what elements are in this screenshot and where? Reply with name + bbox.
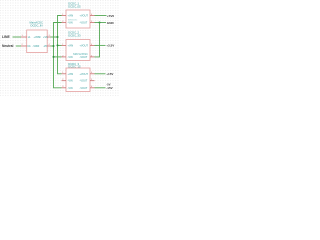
svg-text:+VIN: +VIN — [68, 15, 74, 18]
wire +5V0 — [95, 15, 107, 17]
pin 1 LINE — [21, 35, 31, 39]
pin +VIN U2 — [62, 14, 74, 18]
junction dot box2 +VIN — [57, 44, 59, 46]
pin -VIN U3 — [62, 55, 73, 59]
pin -VOUT U2 — [80, 21, 95, 25]
GND bus vertical — [95, 23, 100, 57]
svg-text:-VOUT: -VOUT — [80, 22, 88, 25]
component U3 DCDC_2 — [66, 30, 90, 60]
svg-text:-VOUT: -VOUT — [80, 56, 88, 59]
pin 3 +V06 — [34, 35, 51, 39]
junction dot GND bus — [99, 22, 101, 24]
pin -VIN U4 — [62, 86, 73, 90]
svg-text:DCDC_05: DCDC_05 — [68, 5, 81, 9]
wire +3.3V — [95, 44, 106, 46]
pin +VOUT U3 — [80, 44, 95, 48]
svg-text:LINE: LINE — [2, 35, 10, 39]
svg-text:+V06F: +V06F — [34, 36, 42, 39]
svg-text:+15V: +15V — [106, 72, 113, 76]
bus +V06 vertical — [58, 16, 62, 74]
wire branch box2 -VIN — [54, 56, 62, 58]
wire -V06 to bus — [51, 45, 54, 47]
wire — [13, 36, 22, 38]
wire +15V — [95, 73, 106, 75]
svg-text:DCDC_IN: DCDC_IN — [31, 24, 43, 28]
bus -V06 vertical — [54, 23, 62, 88]
pin +VOUT U4 — [80, 72, 95, 76]
pin COM left U4 — [62, 79, 73, 83]
svg-text:-15V: -15V — [106, 86, 112, 90]
svg-text:-V06F: -V06F — [33, 45, 40, 48]
pin -VOUT U4 — [80, 86, 95, 90]
junction dot box2 -VIN — [53, 56, 55, 58]
svg-text:+VOUT: +VOUT — [80, 44, 89, 47]
svg-text:-VOUT: -VOUT — [80, 80, 88, 83]
svg-text:+5V0: +5V0 — [107, 14, 115, 18]
wire +V06 to bus — [51, 36, 58, 38]
wire branch box2 +VIN — [58, 44, 62, 46]
svg-text:+VOUT: +VOUT — [80, 15, 89, 18]
svg-text:+VIN: +VIN — [68, 44, 74, 47]
svg-text:GND: GND — [107, 21, 115, 25]
pin -VOUT U3 — [80, 55, 95, 59]
svg-text:-VOUT: -VOUT — [80, 87, 88, 90]
wire GND — [95, 22, 107, 24]
wire — [16, 45, 21, 47]
svg-text:Neutral: Neutral — [2, 44, 13, 48]
svg-text:+VOUT: +VOUT — [80, 73, 89, 76]
svg-text:DCDC_33: DCDC_33 — [68, 33, 81, 37]
pin +VOUT U2 — [80, 14, 95, 18]
pin 0V right U4 (no connect) — [80, 79, 95, 83]
pin 4 -V06 — [33, 44, 51, 48]
svg-text:-VIN: -VIN — [68, 87, 73, 90]
svg-text:+3.3V: +3.3V — [106, 43, 114, 47]
svg-text:+V6: +V6 — [43, 36, 48, 39]
component U4 DCDC_3 — [66, 62, 90, 92]
wire -15V — [95, 87, 106, 89]
pin -VIN U2 — [62, 21, 73, 25]
svg-text:-VIN: -VIN — [68, 56, 73, 59]
junction dot -V06 — [53, 45, 55, 47]
component U1 MainACDC DCDC_IN — [27, 21, 48, 53]
pin +VIN U3 — [62, 44, 74, 48]
pin 2 Neutral — [21, 44, 31, 48]
svg-text:-VIN: -VIN — [68, 22, 73, 25]
pin +VIN U4 — [62, 72, 74, 76]
component U2 DCDC_1 — [66, 2, 90, 28]
svg-text:-VIN: -VIN — [68, 80, 73, 83]
junction dot +V06 — [57, 36, 59, 38]
svg-text:-V6: -V6 — [43, 45, 48, 48]
svg-text:+VIN: +VIN — [68, 73, 74, 76]
